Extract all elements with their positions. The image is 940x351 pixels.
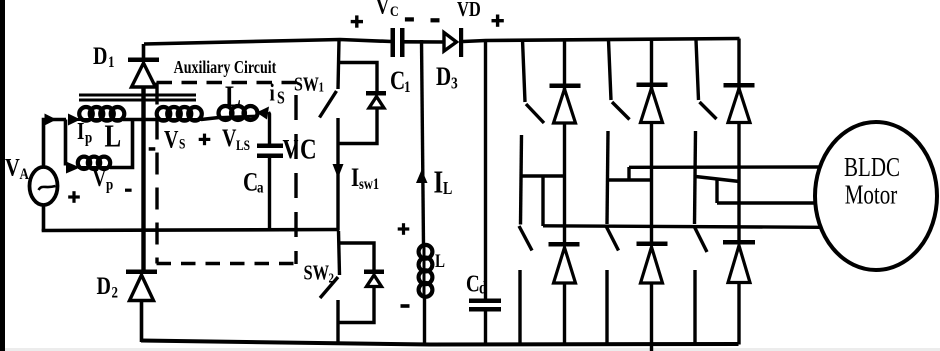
inverter leg2 diode column — [650, 40, 653, 242]
wire top rail left (D1 top to capacitor VC) — [144, 40, 391, 45]
svg-text:p: p — [106, 176, 113, 194]
label Ca — [243, 168, 264, 197]
svg-text:D: D — [97, 272, 111, 300]
label - (L link bottom) — [401, 304, 410, 308]
wire phase A to motor — [543, 226, 820, 228]
wire Ca bottom — [268, 158, 271, 231]
inverter leg2 top switch conductor — [609, 40, 612, 100]
svg-text:L: L — [443, 180, 452, 199]
label L (aux coil) — [225, 79, 241, 112]
label + (L link top) — [398, 223, 410, 235]
left border bar — [0, 0, 5, 351]
svg-text:1: 1 — [108, 54, 115, 72]
svg-text:L: L — [105, 120, 122, 154]
wire Cd bottom — [484, 312, 487, 346]
svg-text:SW: SW — [304, 262, 330, 285]
svg-text:1: 1 — [404, 79, 411, 97]
wire L coil down to Ca — [269, 112, 270, 144]
inductor L primary coil — [77, 107, 124, 121]
inverter leg2 lower stub — [605, 270, 608, 345]
wire bottom line (source to SW midpoint) — [42, 230, 339, 231]
svg-text:V: V — [222, 124, 237, 152]
wire leg3 midpoint bus — [696, 177, 740, 182]
wire leg2 midpoint bus — [607, 178, 652, 181]
inverter leg1 diode column — [563, 40, 566, 243]
svg-text:2: 2 — [112, 284, 119, 302]
svg-text:C: C — [390, 3, 399, 20]
svg-text:I: I — [77, 118, 84, 145]
svg-text:1: 1 — [319, 80, 324, 95]
svg-text:V: V — [376, 0, 389, 19]
wire IL branch — [422, 40, 424, 245]
svg-text:LS: LS — [236, 137, 250, 154]
svg-text:sw1: sw1 — [359, 176, 379, 194]
inverter leg2 bottom switch blade — [606, 226, 619, 251]
inductor VS coil — [157, 107, 202, 121]
svg-text:S: S — [179, 135, 185, 152]
svg-text:C: C — [300, 133, 317, 165]
label VLS — [222, 124, 250, 153]
label IL — [434, 166, 453, 200]
label + (VS VLS) — [199, 134, 211, 146]
label VD — [457, 0, 481, 21]
switch SW2 blade — [320, 277, 338, 298]
capacitor Cd — [469, 299, 501, 312]
inverter leg3 diode column — [737, 39, 740, 241]
wire SW1 parallel branch bottom — [338, 108, 377, 144]
svg-text:a: a — [257, 179, 264, 197]
inverter leg3 bottom switch blade — [694, 226, 707, 252]
svg-text:V: V — [93, 165, 107, 192]
label iS — [270, 79, 285, 107]
svg-text:L: L — [225, 79, 241, 112]
svg-text:V: V — [5, 153, 20, 182]
label - (Vp) — [125, 189, 132, 192]
BLDC motor — [815, 122, 937, 270]
arrow Isw1 — [333, 164, 344, 178]
diode D1 — [128, 44, 159, 87]
wire capacitor to diode D3 — [405, 40, 446, 44]
svg-text:p: p — [85, 129, 92, 147]
svg-text:D: D — [436, 63, 451, 92]
svg-text:BLDC: BLDC — [844, 152, 900, 182]
wire SW2 parallel branch bottom — [338, 287, 374, 323]
inverter leg1 top switch blade — [526, 104, 544, 123]
inverter leg3 diode column lower — [737, 283, 740, 345]
svg-text:L: L — [435, 250, 445, 271]
inverter leg3 top diode — [724, 83, 755, 123]
inductor Vp coil — [78, 157, 110, 169]
inverter leg3 bottom diode — [723, 240, 755, 283]
wire SW2 stub — [336, 300, 339, 344]
label - (VC right) — [405, 17, 414, 21]
inverter leg3 lower stub — [693, 270, 696, 345]
bottom gray strip — [5, 348, 940, 351]
wire leg1 midpoint bus — [521, 174, 566, 177]
wire L link to bottom rail — [423, 296, 426, 345]
wire VS coil to L coil — [201, 118, 219, 120]
label + (VC left) — [351, 15, 363, 27]
arrow Ip on main line — [45, 114, 81, 126]
inductor L auxiliary coil — [219, 106, 259, 120]
label Vp — [93, 165, 114, 194]
label VC (across Ca) — [283, 133, 317, 165]
inverter leg1 diode column lower — [563, 283, 566, 345]
wire SW2 parallel branch top — [340, 243, 374, 270]
label Ip — [77, 118, 92, 147]
label L (primary) — [105, 120, 122, 154]
source VA — [30, 167, 58, 205]
label D1 — [93, 42, 115, 71]
svg-text:C: C — [390, 67, 405, 96]
svg-text:C: C — [466, 271, 480, 298]
inverter leg2 bottom diode — [637, 242, 668, 284]
arrow Vp — [66, 162, 80, 174]
label C1 — [390, 67, 411, 97]
wire D1-D2 branch vertical — [141, 87, 145, 270]
wire phase C to motor — [717, 201, 816, 204]
transformer core bars — [79, 94, 196, 102]
inverter leg2 top switch blade — [612, 102, 630, 120]
svg-text:D: D — [93, 42, 107, 70]
inverter leg1 top diode — [550, 84, 581, 124]
wire D2 to bottom rail — [140, 301, 144, 343]
svg-text:Auxiliary Circuit: Auxiliary Circuit — [174, 59, 277, 78]
label D3 — [436, 63, 458, 93]
label L (link coil) — [435, 250, 445, 271]
switch SW2 conductor — [339, 231, 340, 275]
svg-text:Motor: Motor — [845, 180, 897, 210]
arrow IL — [416, 170, 428, 184]
label BLDC Motor — [844, 152, 900, 210]
svg-text:I: I — [351, 164, 359, 193]
inverter leg1 bottom switch blade — [519, 226, 532, 251]
diode D3 (VD) — [444, 28, 463, 57]
switch SW1 conductor — [338, 40, 339, 89]
inverter leg3 top switch blade — [700, 102, 717, 119]
inverter leg1 lower stub — [518, 270, 521, 345]
switch SW1 blade — [320, 91, 337, 118]
svg-text:VD: VD — [457, 0, 481, 21]
auxiliary circuit dashed box — [157, 83, 297, 265]
svg-text:2: 2 — [329, 270, 334, 285]
wire leg2 phase jog — [627, 167, 630, 180]
svg-text:d: d — [479, 279, 487, 298]
svg-text:S: S — [277, 89, 285, 108]
label VS — [164, 125, 185, 153]
wire Cd branch top — [484, 40, 487, 299]
label Auxiliary Circuit — [174, 59, 277, 78]
wire primary coil to D branch — [123, 118, 159, 122]
label SW1 — [294, 73, 324, 95]
label Isw1 — [351, 164, 379, 194]
diode D2 — [126, 270, 157, 301]
diode C1 — [366, 91, 386, 108]
label Cd — [466, 271, 487, 298]
label D2 — [97, 272, 119, 302]
label - (VD left) — [431, 18, 440, 22]
label SW2 — [304, 262, 334, 286]
inverter leg1 mid stub — [521, 135, 522, 225]
inductor L link coil — [419, 245, 433, 297]
inverter leg3 mid stub — [695, 131, 696, 224]
arrow iS — [257, 107, 270, 120]
label VC — [376, 0, 399, 19]
svg-text:A: A — [20, 166, 30, 184]
svg-text:3: 3 — [451, 74, 458, 93]
wire Vp branch left vertical — [64, 120, 68, 166]
wire top rail right (D3 to inverter right corner) — [463, 39, 740, 42]
inverter leg1 top switch conductor — [523, 40, 526, 102]
wire source bottom — [42, 205, 46, 231]
label - (VS left) — [149, 147, 156, 151]
wire SW1 parallel branch top — [338, 63, 377, 92]
inverter leg2 mid stub — [607, 131, 608, 224]
inverter leg2 top diode — [637, 83, 668, 123]
capacitor Ca — [257, 144, 283, 159]
label VA — [5, 153, 29, 183]
wire SW1 stub — [336, 118, 339, 231]
inverter leg1 bottom diode — [549, 242, 580, 283]
inverter leg2 diode column lower — [650, 283, 653, 351]
wire bottom rail — [141, 341, 739, 345]
wire source top to main line — [44, 120, 67, 168]
capacitor VC (series, top rail) — [391, 28, 405, 57]
diode of SW2 — [364, 270, 384, 287]
label + (VD right) — [492, 15, 504, 27]
svg-text:I: I — [434, 166, 444, 200]
svg-text:V: V — [164, 125, 179, 153]
wire phase B to motor — [629, 165, 820, 169]
wire Vp coil right up to main line — [110, 120, 133, 168]
wire leg3 phase jog — [715, 181, 718, 204]
wire leg1 phase jog — [541, 176, 544, 226]
label + (Vp) — [68, 191, 80, 203]
svg-text:C: C — [243, 168, 258, 197]
inverter leg3 top switch conductor — [696, 40, 699, 100]
svg-text:SW: SW — [294, 73, 319, 95]
